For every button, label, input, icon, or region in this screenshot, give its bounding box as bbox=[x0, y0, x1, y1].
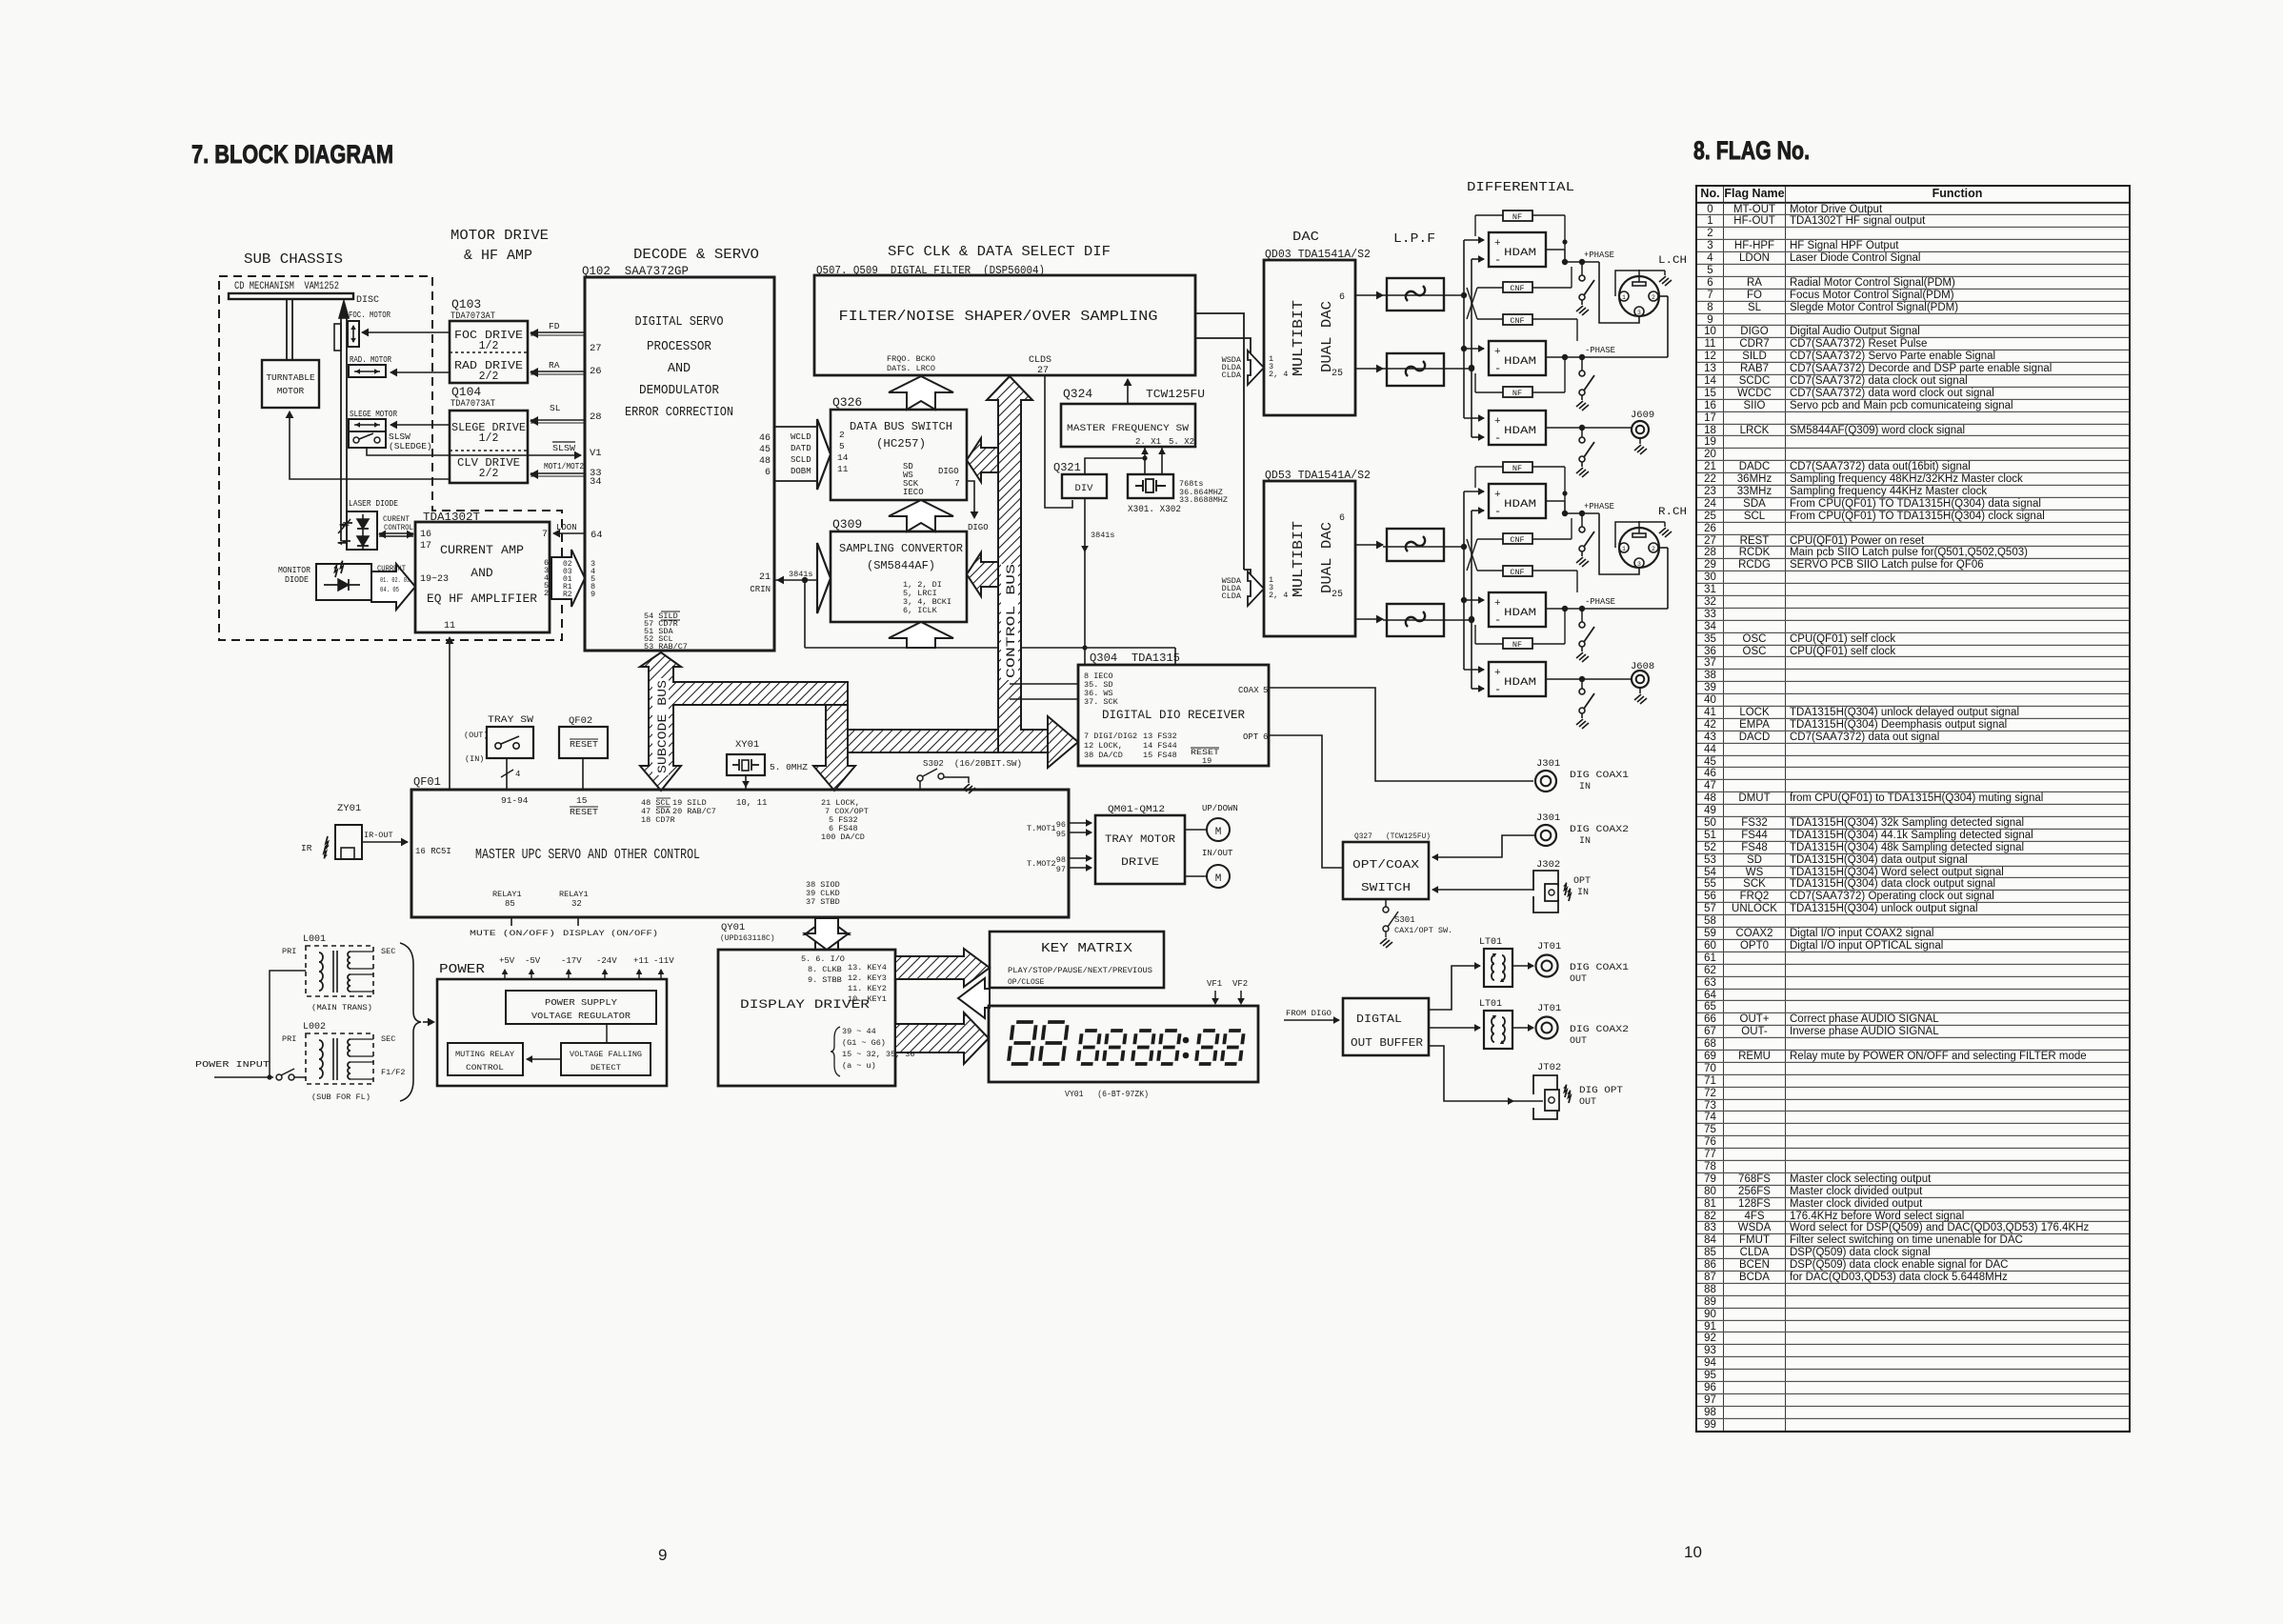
svg-text:M: M bbox=[1215, 827, 1222, 838]
wire MOT1/MOT2 Q102 to CLV drive bbox=[530, 462, 585, 479]
svg-text:SUBCODE BUS: SUBCODE BUS bbox=[656, 680, 670, 773]
svg-text:3841s: 3841s bbox=[789, 570, 813, 579]
CNF box 2 bbox=[1503, 566, 1532, 577]
wires QF01 to tray motor drive bbox=[1069, 819, 1092, 872]
svg-text:3: 3 bbox=[1637, 310, 1641, 316]
svg-text:17: 17 bbox=[420, 541, 431, 551]
svg-text:UP/DOWN: UP/DOWN bbox=[1202, 804, 1238, 813]
driver Q104 SLEGE/CLV DRIVE bbox=[450, 411, 528, 483]
svg-text:NF: NF bbox=[1512, 212, 1522, 222]
svg-text:21: 21 bbox=[759, 572, 771, 583]
svg-text:+: + bbox=[1494, 490, 1501, 501]
svg-text:DIGITAL DIO RECEIVER: DIGITAL DIO RECEIVER bbox=[1102, 709, 1245, 722]
label DAC bbox=[1292, 230, 1319, 245]
svg-text:(a ~ u): (a ~ u) bbox=[842, 1061, 876, 1071]
wire DIGO from Q326 bbox=[967, 481, 989, 532]
svg-text:+: + bbox=[1494, 598, 1501, 610]
svg-text:+: + bbox=[1494, 238, 1501, 250]
svg-text:CONTROL BUS: CONTROL BUS bbox=[1005, 564, 1018, 678]
svg-text:J301: J301 bbox=[1536, 812, 1560, 824]
svg-text:(SM5844AF): (SM5844AF) bbox=[867, 560, 935, 572]
wires QF01 relay outputs bbox=[470, 917, 658, 938]
svg-text:10, 11: 10, 11 bbox=[736, 798, 767, 808]
xlr connector R.CH bbox=[1615, 507, 1687, 568]
svg-text:HDAM: HDAM bbox=[1504, 608, 1536, 619]
svg-text:RELAY1: RELAY1 bbox=[559, 890, 589, 899]
svg-text:COAX: COAX bbox=[1238, 686, 1259, 695]
wires DAC outputs to LPF bbox=[1355, 291, 1384, 624]
wire RAD drive to radial motor bbox=[390, 369, 450, 377]
wire SLEGE drive to sledge motor bbox=[390, 421, 450, 430]
svg-text:01. 02. 03: 01. 02. 03 bbox=[380, 577, 410, 585]
svg-text:-PHASE: -PHASE bbox=[1585, 596, 1615, 607]
svg-text:13 FS32: 13 FS32 bbox=[1143, 732, 1177, 741]
flag table bbox=[1695, 185, 2131, 1433]
bus filter to DACs WSDA DLDA CLDA bbox=[1195, 313, 1264, 606]
jack J608 bbox=[1546, 661, 1654, 704]
ic Q304 TDA1315 label bbox=[1090, 652, 1180, 665]
svg-text:FILTER/NOISE SHAPER/OVER SAMPL: FILTER/NOISE SHAPER/OVER SAMPLING bbox=[839, 309, 1158, 325]
svg-text:CNF: CNF bbox=[1510, 568, 1524, 577]
svg-text:F1/F2: F1/F2 bbox=[381, 1068, 406, 1077]
switch TRAY SW bbox=[464, 714, 534, 764]
svg-text:12 LOCK,: 12 LOCK, bbox=[1084, 741, 1123, 751]
wires Q102 to Q326 bus bbox=[774, 419, 831, 490]
sledge rail bbox=[338, 301, 350, 541]
svg-text:& HF AMP: & HF AMP bbox=[464, 248, 532, 264]
svg-text:DIG OPT: DIG OPT bbox=[1579, 1086, 1623, 1096]
svg-text:OPT/COAX: OPT/COAX bbox=[1352, 858, 1419, 872]
svg-text:IN/OUT: IN/OUT bbox=[1202, 849, 1233, 858]
svg-text:-5V: -5V bbox=[525, 956, 541, 966]
svg-text:25: 25 bbox=[1332, 590, 1343, 600]
svg-text:1/2: 1/2 bbox=[479, 432, 499, 445]
svg-text:DIV: DIV bbox=[1075, 483, 1094, 494]
svg-text:MASTER FREQUENCY SW: MASTER FREQUENCY SW bbox=[1067, 423, 1190, 434]
label VY01 (6-BT-97ZK) bbox=[1065, 1089, 1149, 1099]
motor UP/DOWN bbox=[1185, 804, 1238, 841]
label Q102 SAA7372GP bbox=[582, 264, 689, 278]
svg-text:OPT: OPT bbox=[1573, 876, 1591, 887]
ic Q309 sampling convertor SM5844AF bbox=[831, 517, 967, 622]
svg-text:T.MOT2: T.MOT2 bbox=[1027, 859, 1056, 869]
power block label bbox=[439, 962, 486, 977]
svg-text:Q321: Q321 bbox=[1053, 461, 1081, 474]
svg-text:SEC: SEC bbox=[381, 947, 395, 956]
hatched bus to QF01 bbox=[813, 705, 855, 791]
NF feedback box lower bbox=[1503, 387, 1532, 398]
lpf block 1 bbox=[1387, 278, 1444, 311]
svg-text:QY01: QY01 bbox=[721, 922, 745, 933]
motor IN/OUT bbox=[1185, 849, 1233, 888]
svg-text:91-94: 91-94 bbox=[501, 795, 529, 806]
svg-text:FROM DIGO: FROM DIGO bbox=[1286, 1009, 1332, 1018]
svg-text:OUT: OUT bbox=[1570, 974, 1587, 985]
svg-text:39 ~ 44: 39 ~ 44 bbox=[842, 1027, 876, 1036]
label QD53 TDA1541A/S2 bbox=[1265, 470, 1371, 482]
svg-text:DIG COAX1: DIG COAX1 bbox=[1570, 771, 1629, 781]
svg-text:64: 64 bbox=[591, 530, 603, 541]
lpf block 4 bbox=[1387, 604, 1444, 636]
NF feedback box bbox=[1503, 211, 1532, 222]
subcode bus hatched arrow bbox=[640, 652, 848, 791]
svg-text:97: 97 bbox=[1056, 865, 1066, 874]
svg-text:(HC257): (HC257) bbox=[876, 438, 926, 451]
svg-text:98: 98 bbox=[1056, 855, 1066, 865]
svg-text:6: 6 bbox=[765, 468, 771, 478]
svg-text:RAD. MOTOR: RAD. MOTOR bbox=[350, 355, 391, 365]
svg-text:+: + bbox=[1494, 416, 1501, 428]
wire XY01 to QF01 bbox=[742, 775, 750, 790]
relay mute switch +phase bbox=[1576, 262, 1594, 315]
wires VF1 VF2 bbox=[1207, 979, 1248, 1005]
wire TDA1302T pin11 down to QF01 bbox=[446, 636, 454, 790]
svg-text:16 RC5I: 16 RC5I bbox=[415, 847, 451, 856]
svg-text:+11: +11 bbox=[633, 956, 649, 966]
wire +PHASE output bbox=[1546, 501, 1639, 574]
svg-text:20 RAB/C7: 20 RAB/C7 bbox=[672, 807, 716, 816]
focus motor bbox=[334, 311, 391, 351]
svg-text:+PHASE: +PHASE bbox=[1584, 501, 1614, 511]
svg-text:15 FS48: 15 FS48 bbox=[1143, 751, 1177, 760]
svg-text:Q104: Q104 bbox=[451, 385, 481, 399]
amp TDA1302T label bbox=[423, 511, 480, 524]
svg-text:96: 96 bbox=[1056, 820, 1066, 830]
svg-text:11. KEY2: 11. KEY2 bbox=[848, 984, 887, 993]
svg-text:-PHASE: -PHASE bbox=[1585, 345, 1615, 355]
svg-text:PRI: PRI bbox=[282, 947, 296, 956]
wire TRAY SW to QF01 bbox=[501, 758, 520, 790]
svg-text:FD: FD bbox=[549, 321, 560, 331]
svg-text:-: - bbox=[1494, 683, 1501, 696]
jack J301 DIG COAX2 IN bbox=[1535, 812, 1629, 847]
svg-text:AND: AND bbox=[668, 362, 691, 376]
svg-text:IECO: IECO bbox=[903, 488, 924, 497]
relay mute switch J608 bbox=[1576, 679, 1594, 729]
svg-text:CNF: CNF bbox=[1510, 316, 1524, 326]
svg-text:TRAY SW: TRAY SW bbox=[488, 714, 534, 726]
svg-text:(UPD163118C): (UPD163118C) bbox=[720, 934, 775, 943]
hatched arrow display driver to key matrix bbox=[895, 949, 990, 1018]
svg-text:19~23: 19~23 bbox=[420, 574, 449, 585]
svg-text:FOC. MOTOR: FOC. MOTOR bbox=[349, 311, 391, 320]
svg-text:DETECT: DETECT bbox=[591, 1063, 621, 1073]
power block bbox=[437, 979, 667, 1086]
svg-text:OPT: OPT bbox=[1243, 732, 1259, 742]
arrow TDA1302T outputs to Q102 bbox=[551, 550, 585, 607]
svg-text:-: - bbox=[1494, 362, 1501, 375]
svg-text:TRAY MOTOR: TRAY MOTOR bbox=[1105, 834, 1175, 846]
svg-text:14 FS44: 14 FS44 bbox=[1143, 741, 1177, 751]
relay mute switch -phase bbox=[1576, 357, 1594, 411]
wire SLSW to Q102 V1 bbox=[367, 442, 582, 459]
svg-text:CLDA: CLDA bbox=[1222, 371, 1242, 380]
svg-text:IR: IR bbox=[301, 843, 312, 853]
wire Q324 to filter bbox=[1124, 378, 1132, 404]
CNF box 2 bbox=[1503, 314, 1532, 326]
svg-text:MULTIBIT: MULTIBIT bbox=[1291, 521, 1307, 597]
svg-text:DAC: DAC bbox=[1292, 230, 1319, 245]
svg-text:DIG COAX2: DIG COAX2 bbox=[1570, 825, 1629, 835]
svg-text:T.MOT1: T.MOT1 bbox=[1027, 824, 1056, 833]
svg-text:IN: IN bbox=[1577, 888, 1589, 898]
svg-text:DIGTAL: DIGTAL bbox=[1356, 1012, 1402, 1026]
svg-text:4: 4 bbox=[515, 770, 520, 779]
wires into Q304 from bus switch bbox=[1010, 684, 1078, 699]
laser diode bbox=[338, 498, 399, 550]
spindle shaft bbox=[287, 299, 292, 360]
arrow Q326 to filter bbox=[889, 376, 953, 410]
label DECODE & SERVO bbox=[633, 247, 759, 263]
relay mute switch +phase bbox=[1576, 513, 1594, 567]
svg-text:PROCESSOR: PROCESSOR bbox=[647, 340, 711, 354]
svg-text:SLEGE MOTOR: SLEGE MOTOR bbox=[350, 410, 397, 419]
svg-text:04. 05: 04. 05 bbox=[380, 587, 399, 594]
svg-text:SL: SL bbox=[550, 403, 561, 413]
svg-text:1: 1 bbox=[1622, 546, 1626, 552]
svg-text:2, 4: 2, 4 bbox=[1269, 591, 1288, 600]
wire +PHASE output bbox=[1546, 250, 1639, 323]
svg-text:VF1: VF1 bbox=[1207, 979, 1222, 989]
svg-text:M: M bbox=[1215, 873, 1222, 885]
fl display VY01 bbox=[989, 1006, 1258, 1082]
svg-text:MONITOR: MONITOR bbox=[278, 566, 311, 575]
svg-text:3841s: 3841s bbox=[1091, 531, 1115, 540]
wires crystal and DIV to Q324 bbox=[1085, 448, 1166, 474]
wire DIG COAX2 IN to switch bbox=[1432, 835, 1535, 861]
wire FD Q102 pin27 to FOC drive bbox=[530, 321, 585, 338]
svg-text:33.8688MHZ: 33.8688MHZ bbox=[1179, 495, 1228, 505]
svg-text:IN: IN bbox=[1579, 782, 1591, 792]
tray motor drive QM01-QM12 bbox=[1095, 805, 1185, 884]
svg-text:SUB CHASSIS: SUB CHASSIS bbox=[244, 251, 343, 268]
svg-text:MUTE (ON/OFF): MUTE (ON/OFF) bbox=[470, 929, 555, 938]
cpu QF01 label bbox=[413, 775, 441, 789]
svg-text:LDON: LDON bbox=[556, 523, 577, 532]
wires buffer to LT01/JT01 #1 bbox=[1429, 962, 1534, 1010]
svg-text:9: 9 bbox=[658, 1546, 667, 1564]
svg-text:OUT: OUT bbox=[1579, 1097, 1596, 1108]
svg-text:DECODE & SERVO: DECODE & SERVO bbox=[633, 247, 759, 263]
driver Q104 TDA7073AT label bbox=[451, 385, 495, 410]
svg-text:CNF: CNF bbox=[1510, 284, 1524, 293]
svg-text:DIG COAX2: DIG COAX2 bbox=[1570, 1025, 1629, 1035]
page number 9 bbox=[658, 1546, 667, 1564]
reset ic QF02 bbox=[559, 715, 608, 758]
svg-text:5: 5 bbox=[1263, 686, 1268, 695]
jack J609 bbox=[1546, 410, 1654, 454]
svg-text:DISPLAY DRIVER: DISPLAY DRIVER bbox=[740, 997, 870, 1012]
svg-text:38 DA/CD: 38 DA/CD bbox=[1084, 751, 1123, 760]
svg-text:JT01: JT01 bbox=[1537, 1003, 1561, 1014]
svg-text:MOT1/MOT2: MOT1/MOT2 bbox=[544, 462, 584, 471]
wire Q304 COAX input from J301 bbox=[1269, 688, 1533, 781]
svg-text:SCLD: SCLD bbox=[791, 455, 811, 465]
svg-text:1/2: 1/2 bbox=[479, 340, 499, 352]
ir receiver ZY01 bbox=[301, 803, 362, 859]
svg-text:RELAY1: RELAY1 bbox=[492, 890, 522, 899]
svg-text:85: 85 bbox=[505, 899, 515, 909]
ic Q321 divider bbox=[1053, 461, 1107, 498]
svg-text:DUAL DAC: DUAL DAC bbox=[1319, 522, 1335, 593]
svg-text:-11V: -11V bbox=[653, 956, 674, 966]
arrow into Q309 bottom bbox=[805, 622, 1175, 665]
control bus hatched band bbox=[987, 376, 1048, 752]
NF feedback box lower bbox=[1503, 638, 1532, 650]
svg-text:DATS. LRCO: DATS. LRCO bbox=[887, 364, 935, 373]
svg-text:-24V: -24V bbox=[596, 956, 617, 966]
svg-text:DUAL DAC: DUAL DAC bbox=[1319, 301, 1335, 372]
wire SL Q102 pin28 to SLEGE drive bbox=[530, 403, 585, 426]
lpf block 3 bbox=[1387, 529, 1444, 561]
svg-text:OP/CLOSE: OP/CLOSE bbox=[1008, 978, 1045, 987]
wire filter CLDS 27 to Q321 bbox=[1045, 375, 1072, 508]
svg-text:DISC: DISC bbox=[356, 295, 379, 306]
svg-text:ZY01: ZY01 bbox=[337, 803, 361, 814]
svg-text:R.CH: R.CH bbox=[1658, 507, 1687, 518]
wire Q304 OPT input from switch bbox=[1269, 735, 1343, 868]
svg-text:5: 5 bbox=[839, 441, 845, 451]
ic Q507/Q509 digital filter DSP56004 bbox=[814, 275, 1195, 376]
svg-text:OUT: OUT bbox=[1570, 1036, 1587, 1047]
muting relay control bbox=[448, 1043, 523, 1075]
svg-text:-17V: -17V bbox=[561, 956, 582, 966]
svg-text:10: 10 bbox=[1684, 1543, 1702, 1561]
svg-text:Q103: Q103 bbox=[451, 297, 481, 311]
svg-text:POWER: POWER bbox=[439, 962, 486, 977]
svg-text:VY01 (6-BT-97ZK): VY01 (6-BT-97ZK) bbox=[1065, 1089, 1149, 1099]
arrow Q309 to Q326 bbox=[889, 500, 953, 531]
svg-text:34: 34 bbox=[590, 476, 602, 488]
svg-text:DATA BUS SWITCH: DATA BUS SWITCH bbox=[850, 421, 952, 433]
svg-text:WCLD: WCLD bbox=[791, 432, 811, 442]
svg-text:LT01: LT01 bbox=[1479, 937, 1502, 948]
transformer L002 bbox=[282, 1022, 406, 1102]
svg-text:-: - bbox=[1494, 505, 1501, 518]
svg-text:11: 11 bbox=[444, 621, 455, 632]
label L.P.F bbox=[1393, 231, 1435, 247]
svg-text:+: + bbox=[1494, 347, 1501, 358]
jack JT01 DIG COAX2 OUT bbox=[1536, 1003, 1630, 1047]
hatched arrow control bus to Q309 bbox=[967, 552, 998, 596]
power input switch bbox=[195, 1059, 306, 1080]
svg-text:5. X2: 5. X2 bbox=[1169, 437, 1194, 447]
svg-text:HDAM: HDAM bbox=[1504, 499, 1536, 511]
svg-text:TCW125FU: TCW125FU bbox=[1146, 388, 1205, 401]
power rails labels bbox=[499, 956, 674, 979]
svg-text:DIFFERENTIAL: DIFFERENTIAL bbox=[1467, 180, 1574, 195]
relay mute switch J609 bbox=[1576, 428, 1594, 477]
hatched arrow display driver to fl display bbox=[895, 1012, 989, 1064]
svg-text:(IN): (IN) bbox=[465, 754, 484, 764]
svg-text:Q309: Q309 bbox=[832, 517, 862, 531]
svg-text:2/2: 2/2 bbox=[479, 468, 499, 480]
wire LDON Q102 pin64 to TDA1302T pin7 bbox=[552, 523, 585, 537]
svg-text:25: 25 bbox=[1332, 369, 1343, 379]
svg-text:IR-OUT: IR-OUT bbox=[364, 831, 393, 840]
label DIFFERENTIAL bbox=[1467, 180, 1574, 195]
svg-text:FRQO. BCKO: FRQO. BCKO bbox=[887, 354, 935, 364]
driver Q103 TDA7073AT label bbox=[451, 297, 495, 322]
svg-text:J609: J609 bbox=[1631, 410, 1654, 421]
driver Q103 FOC/RAD DRIVE bbox=[450, 321, 528, 383]
svg-text:5. 6. I/O: 5. 6. I/O bbox=[801, 954, 845, 964]
sledge motor bbox=[349, 410, 397, 431]
svg-text:NF: NF bbox=[1512, 640, 1522, 650]
svg-text:-: - bbox=[1494, 431, 1501, 445]
svg-text:PLAY/STOP/PAUSE/NEXT/PREVIOUS: PLAY/STOP/PAUSE/NEXT/PREVIOUS bbox=[1008, 967, 1152, 975]
jack J301 DIG COAX1 IN bbox=[1535, 758, 1629, 792]
svg-text:NF: NF bbox=[1512, 464, 1522, 473]
svg-text:+5V: +5V bbox=[499, 956, 515, 966]
svg-text:S302 (16/20BIT.SW): S302 (16/20BIT.SW) bbox=[923, 759, 1022, 769]
svg-text:V1: V1 bbox=[590, 448, 602, 459]
svg-text:37 STBD: 37 STBD bbox=[806, 897, 840, 907]
svg-text:QF02: QF02 bbox=[569, 715, 592, 727]
svg-text:AND: AND bbox=[471, 566, 493, 580]
voltage falling detect bbox=[561, 1043, 651, 1075]
svg-text:7 DIGI/DIG2: 7 DIGI/DIG2 bbox=[1084, 732, 1137, 741]
svg-text:Q326: Q326 bbox=[832, 395, 862, 410]
svg-text:CONTROL: CONTROL bbox=[466, 1063, 504, 1073]
svg-text:6, ICLK: 6, ICLK bbox=[903, 606, 938, 615]
svg-text:7. BLOCK DIAGRAM: 7. BLOCK DIAGRAM bbox=[191, 140, 393, 169]
HDAM buffer (J608) bbox=[1489, 662, 1546, 696]
svg-text:6: 6 bbox=[1339, 292, 1345, 303]
svg-text:Q324: Q324 bbox=[1063, 387, 1092, 401]
wire CLV drive to turntable motor bbox=[286, 411, 450, 479]
monitor diode bbox=[278, 561, 371, 600]
svg-text:DIGITAL SERVO: DIGITAL SERVO bbox=[635, 315, 724, 330]
page number 10 bbox=[1684, 1543, 1702, 1561]
wire RA Q102 pin26 to RAD drive bbox=[530, 360, 585, 377]
svg-text:CURRENT AMP: CURRENT AMP bbox=[440, 543, 524, 557]
svg-text:CRIN: CRIN bbox=[750, 585, 771, 594]
svg-text:TDA7073AT: TDA7073AT bbox=[451, 399, 495, 410]
CNF box 1 bbox=[1503, 282, 1532, 293]
svg-text:R2: R2 bbox=[563, 591, 572, 599]
svg-text:DIG COAX1: DIG COAX1 bbox=[1570, 963, 1629, 973]
svg-text:ERROR CORRECTION: ERROR CORRECTION bbox=[625, 406, 733, 420]
digital out buffer bbox=[1343, 998, 1429, 1055]
svg-text:QF01: QF01 bbox=[413, 775, 441, 789]
transformer LT01 #2 bbox=[1479, 999, 1512, 1049]
svg-text:7: 7 bbox=[542, 530, 548, 540]
svg-text:19: 19 bbox=[1202, 756, 1212, 766]
svg-text:S301: S301 bbox=[1394, 915, 1415, 925]
svg-text:2: 2 bbox=[1652, 546, 1655, 552]
brace transformer secondaries to power bbox=[400, 943, 435, 1101]
svg-text:RESET: RESET bbox=[570, 739, 598, 750]
svg-text:5. 0MHZ: 5. 0MHZ bbox=[770, 762, 808, 772]
svg-text:SEC: SEC bbox=[381, 1034, 395, 1044]
svg-text:CAX1/OPT SW.: CAX1/OPT SW. bbox=[1394, 926, 1452, 935]
svg-text:46: 46 bbox=[759, 433, 771, 444]
transformer L001 bbox=[282, 934, 395, 1012]
svg-text:95: 95 bbox=[1056, 830, 1066, 839]
svg-text:QM01-QM12: QM01-QM12 bbox=[1108, 805, 1165, 815]
svg-text:6: 6 bbox=[1263, 732, 1268, 742]
wires differential input rails bbox=[1383, 215, 1577, 441]
HDAM amp - (L) bbox=[1489, 341, 1546, 375]
svg-text:MOTOR DRIVE: MOTOR DRIVE bbox=[451, 228, 549, 244]
svg-text:J301: J301 bbox=[1536, 758, 1560, 770]
svg-text:+: + bbox=[1494, 668, 1501, 679]
svg-text:HDAM: HDAM bbox=[1504, 248, 1536, 259]
label Q507. Q509 DIGTAL FILTER (DSP56004) bbox=[816, 265, 1045, 277]
svg-text:13. KEY4: 13. KEY4 bbox=[848, 963, 887, 972]
svg-text:HDAM: HDAM bbox=[1504, 677, 1536, 689]
